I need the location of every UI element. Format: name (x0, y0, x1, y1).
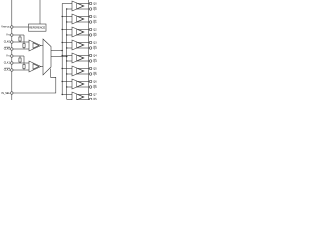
overbar for Q5bar label (93, 71, 96, 73)
buffer inner triangle Q6 (77, 81, 84, 87)
output buffer Q1 (62, 14, 89, 24)
junction bus complement Q5 (66, 73, 67, 74)
svg-text:CLK1: CLK1 (4, 62, 11, 65)
pin Q0 (89, 2, 92, 5)
junction bus complement Q1 (66, 21, 67, 22)
overbar for Q7bar label (93, 97, 96, 99)
wire CLK0bar (13, 48, 29, 50)
junction mux out true (61, 50, 63, 52)
wire tap complement Q3 (67, 47, 72, 49)
output buffer Q4 (62, 53, 89, 63)
buffer inner triangle Q0 (77, 3, 84, 9)
wire VCC feed to reference block (39, 0, 41, 24)
svg-text:Q7: Q7 (93, 99, 97, 100)
junction bus complement Q2 (66, 34, 67, 35)
wire tap complement Q7 (67, 98, 72, 100)
wire output Q6 (78, 81, 90, 83)
buffer triangle Q3 (72, 40, 84, 50)
wire CLK1 (13, 62, 29, 64)
wire tap true Q6 (62, 81, 72, 83)
input buffer A1 (29, 40, 41, 51)
wire IN_SEL to mux select (13, 69, 56, 93)
pin CLK0 (11, 41, 14, 44)
wire tap complement Q1 (67, 21, 72, 23)
pin Q6 (89, 80, 92, 83)
svg-text:Q6: Q6 (93, 80, 97, 83)
svg-text:Q0: Q0 (93, 2, 97, 5)
resistor R3 (19, 56, 21, 63)
junction bus true Q2 (62, 29, 63, 30)
junction bus complement Q0 (66, 8, 67, 9)
output buffer Q2 (62, 27, 89, 37)
svg-text:CLK0: CLK0 (4, 48, 11, 51)
svg-text:CLK0: CLK0 (4, 41, 11, 44)
wire VREF pin to reference (13, 26, 29, 28)
output buffer Q5 (62, 66, 89, 76)
buffer triangle Q5 (72, 66, 84, 76)
svg-text:VREF-AC: VREF-AC (1, 26, 10, 29)
wire tap true Q7 (62, 94, 72, 96)
wire output Q5bar (77, 73, 90, 75)
output buffer Q7 (62, 92, 89, 102)
pin Q1bar (89, 21, 92, 24)
buffer triangle Q7 (72, 92, 84, 102)
wire output Q2 (78, 29, 90, 31)
input buffer A2 inner triangle (33, 64, 39, 70)
buffer inner triangle Q3 (77, 42, 84, 48)
wire tap true Q2 (62, 29, 72, 31)
pin Q4bar (89, 60, 92, 63)
wire output Q0 (78, 3, 90, 5)
svg-text:Q6: Q6 (93, 86, 97, 89)
svg-text:IN_SEL: IN_SEL (1, 92, 10, 95)
svg-text:Q4: Q4 (93, 60, 97, 63)
junction bus true Q4 (62, 55, 63, 56)
wire output Q3bar (77, 47, 90, 49)
junction bus complement Q6 (66, 86, 67, 87)
buffer inner triangle Q4 (77, 55, 84, 61)
pin Q2bar (89, 34, 92, 37)
junction bus complement Q4 (66, 60, 67, 61)
buffer inner triangle Q1 (77, 16, 84, 22)
buffer inner triangle Q5 (77, 68, 84, 74)
buffer inner triangle Q7 (77, 94, 84, 100)
pin CLK1 (11, 62, 14, 65)
resistor R1 (19, 35, 21, 42)
wire output Q4 (78, 55, 90, 57)
output buffer Q6 (62, 79, 89, 89)
junction bus complement Q3 (66, 47, 67, 48)
chip left border (11, 0, 13, 100)
svg-text:Q3: Q3 (93, 41, 97, 44)
wire mux output true to bus (51, 50, 62, 52)
wire tap true Q5 (62, 68, 72, 70)
svg-text:Q5: Q5 (93, 73, 97, 76)
wire CLK1bar (13, 69, 29, 71)
pin Q5bar (89, 73, 92, 76)
wire output Q2bar (77, 34, 90, 36)
pin Q3 (89, 41, 92, 44)
wire output Q6bar (77, 86, 90, 88)
chip right border (88, 0, 90, 100)
bus line true (61, 4, 63, 95)
svg-text:Q3: Q3 (93, 47, 97, 50)
reference block U2 (29, 24, 47, 31)
buffer triangle Q2 (72, 27, 84, 37)
wire tap complement Q2 (67, 34, 72, 36)
wire tap true Q4 (62, 55, 72, 57)
svg-text:REFERENCE: REFERENCE (29, 26, 45, 30)
svg-text:Q7: Q7 (93, 93, 97, 96)
svg-text:Q2: Q2 (93, 28, 97, 31)
overbar for Q1bar label (93, 19, 96, 21)
bus line complement (66, 9, 68, 99)
wire CLK0 (13, 41, 29, 43)
wire output Q1 (78, 16, 90, 18)
pin IN_SEL (11, 92, 14, 95)
svg-text:Q4: Q4 (93, 54, 97, 57)
pin Q6bar (89, 86, 92, 89)
wire tap complement Q6 (67, 86, 72, 88)
wire output Q7 (78, 94, 90, 96)
svg-text:Q5: Q5 (93, 67, 97, 70)
buffer triangle Q6 (72, 79, 84, 89)
junction bus true Q6 (62, 81, 63, 82)
wire tap complement Q5 (67, 73, 72, 75)
wire output Q0bar (77, 8, 90, 10)
svg-text:Q1: Q1 (93, 15, 97, 18)
wire tap complement Q0 (67, 8, 72, 10)
wire A1 output to mux (41, 45, 43, 47)
wire mux output complement to bus (51, 56, 67, 58)
overbar for Q3bar label (93, 45, 96, 47)
pin Q7 (89, 93, 92, 96)
overbar for CLK0bar (4, 46, 10, 48)
overbar for Q0bar label (93, 6, 96, 8)
wire output Q5 (78, 68, 90, 70)
pin Q4 (89, 54, 92, 57)
wire output Q1bar (77, 21, 90, 23)
svg-text:Q1: Q1 (93, 21, 97, 24)
buffer inner triangle Q2 (77, 29, 84, 35)
junction mux out complement (66, 56, 68, 58)
wire output Q7bar (77, 98, 90, 100)
svg-text:CLK1: CLK1 (4, 69, 11, 72)
pin VT0 (11, 34, 14, 37)
pin VREF (11, 26, 14, 29)
buffer triangle Q0 (72, 1, 84, 11)
input buffer A1 inner triangle (33, 43, 39, 49)
wire output Q4bar (77, 60, 90, 62)
pin Q1 (89, 15, 92, 18)
pin CLK1bar (11, 69, 14, 72)
pin Q7bar (89, 98, 92, 101)
junction bus true Q7 (62, 94, 63, 95)
overbar for Q4bar label (93, 58, 96, 60)
input buffer A2 (29, 61, 41, 72)
pin VT1 (11, 55, 14, 58)
buffer triangle Q1 (72, 14, 84, 24)
pin Q5 (89, 67, 92, 70)
wire output Q3 (78, 42, 90, 44)
pin CLK0bar (11, 48, 14, 51)
overbar for CLK1bar (4, 67, 10, 69)
wire tap true Q1 (62, 16, 72, 18)
wire VT1 rail (13, 55, 24, 57)
svg-text:VT1: VT1 (6, 55, 10, 58)
svg-text:Q0: Q0 (93, 8, 97, 11)
buffer triangle Q4 (72, 53, 84, 63)
wire tap complement Q4 (67, 60, 72, 62)
pin Q2 (89, 28, 92, 31)
svg-text:VT0: VT0 (6, 34, 10, 37)
output buffer Q3 (62, 40, 89, 50)
wire A2 output to mux (41, 66, 43, 68)
junction bus true Q1 (62, 16, 63, 17)
output buffer Q0 (62, 1, 89, 11)
junction bus true Q3 (62, 42, 63, 43)
svg-text:Q2: Q2 (93, 34, 97, 37)
mux U1 (43, 39, 51, 75)
wire VT0 rail (13, 34, 24, 36)
pin Q3bar (89, 47, 92, 50)
wire tap true Q3 (62, 42, 72, 44)
overbar for Q2bar label (93, 32, 96, 34)
resistor R2 (23, 35, 25, 49)
overbar for Q6bar label (93, 84, 96, 86)
wire tap true Q0 (62, 3, 72, 5)
resistor R4 (23, 56, 25, 70)
junction bus true Q5 (62, 68, 63, 69)
pin Q0bar (89, 8, 92, 11)
